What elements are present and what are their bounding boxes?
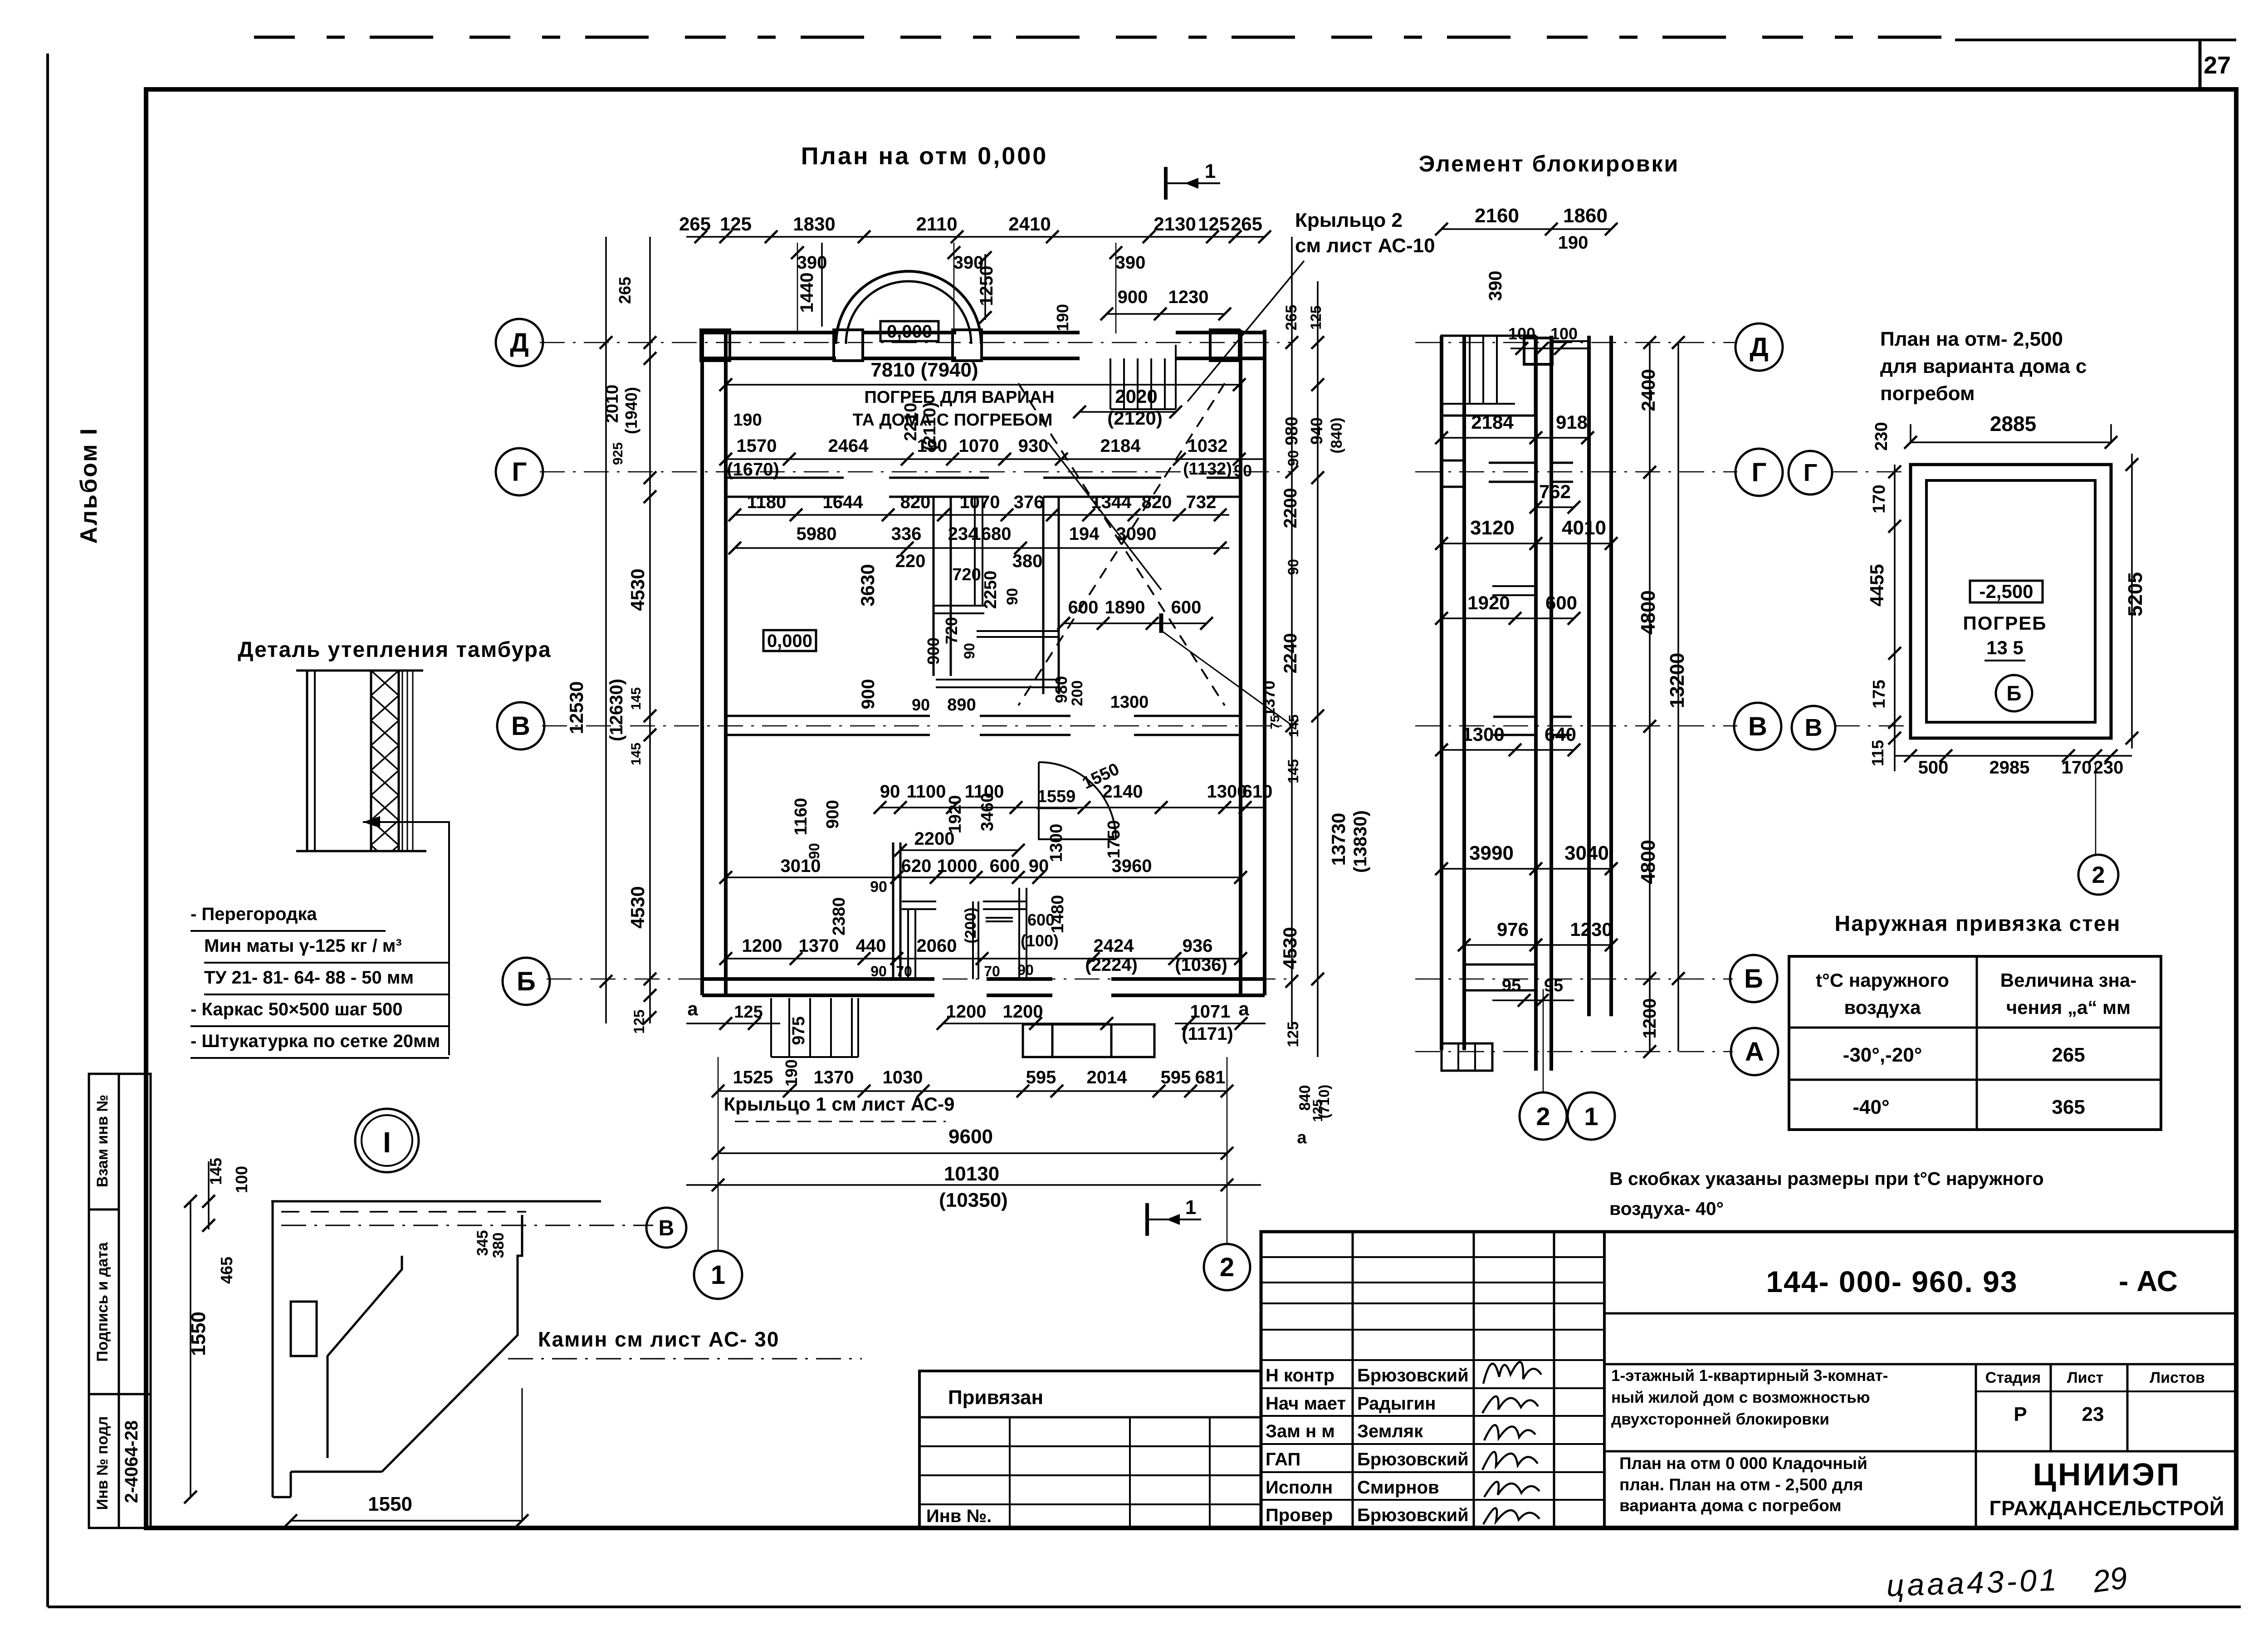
- outer page top scan dashes: [254, 36, 1955, 39]
- svg-text:90: 90: [870, 878, 887, 896]
- svg-text:В: В: [511, 711, 530, 741]
- svg-text:13200: 13200: [1666, 653, 1688, 708]
- svg-text:265: 265: [616, 277, 634, 304]
- svg-text:План на отм- 2,500: План на отм- 2,500: [1880, 328, 2063, 350]
- svg-text:план. План на отм - 2,500 для: план. План на отм - 2,500 для: [1619, 1475, 1863, 1494]
- partition bath horizontal 2: [977, 630, 1058, 632]
- svg-text:900: 900: [858, 679, 878, 710]
- svg-text:820: 820: [900, 492, 931, 512]
- svg-text:Д: Д: [1750, 333, 1768, 362]
- svg-text:3460: 3460: [978, 793, 997, 832]
- svg-text:12530: 12530: [566, 681, 587, 734]
- partition closet mid: [972, 901, 974, 979]
- svg-text:13 5: 13 5: [1986, 637, 2024, 658]
- svg-text:1: 1: [711, 1260, 725, 1290]
- svg-text:Наружная привязка стен: Наружная привязка стен: [1835, 912, 2121, 936]
- svg-text:125: 125: [631, 1009, 647, 1033]
- svg-text:ГРАЖДАНСЕЛЬСТРОЙ: ГРАЖДАНСЕЛЬСТРОЙ: [1989, 1497, 2225, 1520]
- svg-text:220: 220: [895, 551, 926, 571]
- partition corridor vertical: [974, 497, 976, 606]
- svg-text:3630: 3630: [857, 564, 878, 606]
- right vertical dim chain: [1291, 237, 1293, 1023]
- right plan left wall: [1440, 336, 1443, 1050]
- main plan top wall piers: [701, 330, 730, 361]
- svg-text:а: а: [1297, 1128, 1307, 1147]
- svg-text:190: 190: [733, 411, 762, 430]
- svg-text:1370: 1370: [799, 936, 839, 956]
- svg-text:90: 90: [961, 643, 978, 659]
- axis circle Г right: [1735, 449, 1783, 496]
- svg-text:2-4064-28: 2-4064-28: [122, 1420, 142, 1503]
- svg-text:2400: 2400: [1637, 369, 1659, 411]
- right plan B bottom wall: [1464, 964, 1536, 966]
- svg-text:погребом: погребом: [1880, 382, 1975, 405]
- svg-text:1: 1: [1205, 160, 1216, 182]
- svg-text:265: 265: [1231, 213, 1262, 235]
- svg-text:4800: 4800: [1637, 590, 1659, 635]
- svg-text:Взам инв №: Взам инв №: [94, 1095, 111, 1187]
- svg-text:1570: 1570: [737, 436, 777, 456]
- svg-text:2: 2: [2092, 862, 2105, 888]
- svg-text:930: 930: [1018, 436, 1049, 456]
- svg-text:1070: 1070: [959, 436, 999, 456]
- svg-text:336: 336: [891, 524, 922, 544]
- svg-text:двухсторонней блокировки: двухсторонней блокировки: [1611, 1410, 1829, 1428]
- svg-text:(1132): (1132): [1183, 460, 1232, 479]
- mark 0.000 top: [880, 321, 938, 341]
- svg-text:1: 1: [1185, 1196, 1196, 1219]
- axis line 2 vertical: [1227, 1057, 1228, 1243]
- svg-text:170: 170: [1870, 485, 1889, 513]
- svg-text:190: 190: [917, 436, 948, 456]
- node I circle: [355, 1109, 419, 1172]
- axis line A: [1415, 1051, 1733, 1053]
- svg-text:90: 90: [1029, 856, 1049, 876]
- stair arc door: [1039, 762, 1116, 839]
- svg-text:980: 980: [1282, 416, 1301, 445]
- cellar axis B circle: [1996, 675, 2032, 711]
- svg-text:1344: 1344: [1091, 492, 1132, 512]
- svg-text:1644: 1644: [823, 492, 864, 512]
- svg-text:Зам н м: Зам н м: [1266, 1421, 1335, 1441]
- fireplace dashed axis: [281, 1225, 653, 1226]
- svg-text:976: 976: [1497, 919, 1529, 940]
- svg-text:ПОГРЕБ ДЛЯ ВАРИАН: ПОГРЕБ ДЛЯ ВАРИАН: [864, 388, 1054, 407]
- svg-text:5980: 5980: [797, 524, 837, 544]
- svg-text:265: 265: [679, 213, 711, 235]
- svg-text:(1171): (1171): [1182, 1024, 1233, 1044]
- svg-text:200: 200: [1069, 680, 1086, 706]
- right plan mid stub: [1492, 585, 1536, 587]
- svg-text:681: 681: [1195, 1067, 1226, 1087]
- svg-text:-2,500: -2,500: [1979, 581, 2033, 602]
- svg-text:95: 95: [1502, 976, 1521, 995]
- svg-text:1071: 1071: [1190, 1002, 1231, 1022]
- svg-text:2: 2: [1536, 1102, 1550, 1131]
- main plan top wall axis D: [701, 331, 836, 334]
- svg-text:1440: 1440: [797, 273, 817, 313]
- svg-text:(1670): (1670): [727, 460, 779, 480]
- svg-text:595: 595: [1161, 1067, 1191, 1087]
- svg-text:ТУ 21- 81- 64- 88 - 50 мм: ТУ 21- 81- 64- 88 - 50 мм: [204, 968, 414, 988]
- svg-text:600: 600: [1545, 592, 1577, 613]
- svg-text:воздуха: воздуха: [1844, 997, 1921, 1018]
- sheet number box 27: [1955, 39, 2236, 41]
- svg-text:Привязан: Привязан: [948, 1386, 1043, 1409]
- partition bath horizontal 3: [936, 679, 1061, 680]
- porch1 stairs bottom left: [770, 998, 772, 1057]
- axis circle Г left: [496, 448, 543, 495]
- svg-text:175: 175: [1870, 680, 1889, 708]
- svg-text:936: 936: [1183, 936, 1213, 956]
- axis line 1 vertical: [718, 1057, 719, 1251]
- left vertical dim chain: [605, 237, 607, 1023]
- svg-text:В: В: [659, 1216, 675, 1240]
- svg-text:820: 820: [1142, 492, 1172, 512]
- svg-text:1000: 1000: [937, 856, 978, 876]
- right plan right dim chain: [1649, 343, 1651, 1052]
- row below V: [880, 807, 1266, 808]
- svg-text:1550: 1550: [368, 1493, 412, 1515]
- title block upper rows: [1261, 1256, 1604, 1258]
- svg-text:975: 975: [789, 1016, 808, 1045]
- svg-text:Радыгин: Радыгин: [1357, 1394, 1436, 1414]
- svg-text:Б: Б: [517, 967, 536, 996]
- svg-text:762: 762: [1539, 481, 1571, 502]
- svg-text:720: 720: [952, 565, 981, 584]
- svg-text:Стадия: Стадия: [1985, 1369, 2041, 1386]
- svg-text:600: 600: [1171, 597, 1202, 617]
- svg-text:1230: 1230: [1168, 287, 1209, 307]
- axis circle Д left: [496, 319, 543, 366]
- svg-text:В: В: [1805, 714, 1823, 741]
- svg-text:ЦНИИЭП: ЦНИИЭП: [2033, 1457, 2181, 1492]
- main plan bottom wall: [702, 977, 934, 981]
- svg-text:465: 465: [217, 1257, 236, 1284]
- svg-text:900: 900: [924, 637, 943, 665]
- svg-text:см лист АС-10: см лист АС-10: [1295, 235, 1435, 257]
- fireplace outline: [271, 1200, 601, 1203]
- svg-text:29: 29: [2090, 1560, 2129, 1599]
- right plan top square: [1524, 338, 1552, 364]
- svg-text:600: 600: [1027, 911, 1055, 929]
- svg-text:890: 890: [947, 695, 976, 715]
- svg-text:Провер: Провер: [1266, 1505, 1333, 1525]
- axis line V: [542, 725, 1293, 727]
- axis circle 1 bottom: [694, 1251, 742, 1299]
- svg-text:варианта дома с погребом: варианта дома с погребом: [1619, 1496, 1842, 1515]
- svg-text:Б: Б: [1744, 964, 1763, 994]
- svg-text:Величина зна-: Величина зна-: [2000, 969, 2136, 991]
- main plan right wall: [1239, 330, 1242, 995]
- svg-text:- Каркас 50×500 шаг 500: - Каркас 50×500 шаг 500: [191, 999, 402, 1019]
- svg-text:Листов: Листов: [2150, 1369, 2205, 1386]
- svg-text:2200: 2200: [1281, 488, 1300, 529]
- svg-text:ТА ДОМА С ПОГРЕБОМ: ТА ДОМА С ПОГРЕБОМ: [853, 411, 1053, 430]
- room dim row 1: [735, 514, 1229, 516]
- right plan central wall: [1534, 336, 1538, 1071]
- title block frame: [1261, 1232, 2236, 1528]
- right plan top porch: [1442, 336, 1535, 416]
- right plan right wall: [1587, 336, 1591, 1016]
- svg-text:640: 640: [1545, 724, 1576, 745]
- svg-text:90: 90: [1285, 450, 1301, 466]
- svg-text:595: 595: [1026, 1067, 1056, 1087]
- svg-text:1860: 1860: [1563, 205, 1608, 227]
- svg-text:0,000: 0,000: [887, 322, 932, 342]
- svg-text:3960: 3960: [1112, 856, 1152, 876]
- svg-text:ный жилой дом с возможностью: ный жилой дом с возможностью: [1611, 1389, 1870, 1406]
- svg-text:2014: 2014: [1087, 1067, 1128, 1087]
- svg-text:732: 732: [1186, 492, 1217, 512]
- svg-text:1300: 1300: [1047, 824, 1066, 862]
- interior wall axis G: [726, 477, 844, 479]
- svg-text:1: 1: [1584, 1102, 1598, 1131]
- svg-text:390: 390: [1115, 253, 1146, 273]
- tambour leader: [363, 822, 449, 1055]
- svg-text:(100): (100): [1021, 931, 1059, 950]
- svg-text:2885: 2885: [1990, 412, 2036, 436]
- svg-text:90: 90: [1017, 962, 1034, 978]
- svg-text:145: 145: [1285, 759, 1301, 783]
- svg-text:100: 100: [1550, 324, 1578, 343]
- axis line B(lower): [547, 979, 1293, 980]
- svg-text:t°C наружного: t°C наружного: [1816, 969, 1949, 991]
- svg-text:План на отм 0,000: План на отм 0,000: [801, 142, 1048, 170]
- svg-text:Элемент блокировки: Элемент блокировки: [1419, 151, 1680, 176]
- svg-text:4455: 4455: [1866, 564, 1887, 606]
- svg-text:620: 620: [901, 856, 932, 876]
- partition bath horizontal 1: [934, 605, 984, 607]
- svg-text:2184: 2184: [1100, 436, 1141, 456]
- svg-text:190: 190: [782, 1059, 801, 1087]
- svg-text:1200: 1200: [1003, 1002, 1043, 1022]
- svg-text:Брюзовский: Брюзовский: [1357, 1366, 1469, 1385]
- privyazan table: [919, 1371, 1261, 1528]
- svg-text:Подпись и дата: Подпись и дата: [94, 1242, 111, 1362]
- svg-text:3090: 3090: [1116, 524, 1157, 544]
- right plan A extension: [1442, 1043, 1492, 1045]
- svg-text:380: 380: [490, 1233, 507, 1258]
- svg-text:7810 (7940): 7810 (7940): [870, 359, 978, 381]
- svg-text:(200): (200): [962, 907, 979, 943]
- svg-text:144- 000- 960. 93: 144- 000- 960. 93: [1766, 1265, 2018, 1298]
- tambour wall lines: [296, 670, 423, 672]
- svg-text:Исполн: Исполн: [1266, 1478, 1333, 1498]
- outer page edge left: [46, 54, 49, 1607]
- right plan dims top: [1442, 228, 1611, 230]
- svg-text:1750: 1750: [1105, 820, 1124, 859]
- svg-text:500: 500: [1918, 758, 1949, 778]
- svg-text:125: 125: [1198, 213, 1230, 235]
- stage sheet cols: [1975, 1364, 1977, 1528]
- tambour insulation hatch: [371, 671, 399, 851]
- svg-text:1920: 1920: [1467, 592, 1510, 613]
- partition bath vertical: [1042, 497, 1045, 694]
- svg-text:2240: 2240: [1281, 633, 1300, 674]
- svg-text:а: а: [687, 998, 698, 1019]
- svg-text:600: 600: [1068, 597, 1099, 617]
- svg-text:1032: 1032: [1188, 436, 1228, 456]
- section mark top: [1164, 167, 1168, 200]
- svg-text:2210: 2210: [901, 403, 920, 441]
- svg-text:Альбом I: Альбом I: [76, 427, 102, 543]
- svg-text:125: 125: [1310, 1099, 1325, 1122]
- top dim row: [686, 236, 1266, 238]
- axis circle 2 cellar leader: [2078, 855, 2118, 895]
- svg-text:720: 720: [942, 617, 961, 644]
- svg-text:1250: 1250: [977, 266, 997, 306]
- svg-text:Г: Г: [1752, 458, 1767, 487]
- svg-text:23: 23: [2082, 1403, 2104, 1425]
- axis circle Б left: [503, 958, 550, 1005]
- interior wall axis V: [726, 715, 930, 717]
- svg-text:4010: 4010: [1562, 517, 1606, 539]
- axis circle 2 bottom: [1204, 1244, 1250, 1290]
- svg-text:1180: 1180: [747, 492, 787, 512]
- porch arch: [836, 271, 981, 344]
- bottom outer dims: [718, 1090, 1227, 1092]
- svg-text:194: 194: [1069, 524, 1100, 544]
- right plan G stubs: [1489, 462, 1536, 464]
- axis line D: [540, 342, 1293, 343]
- svg-text:1-этажный 1-квартирный 3-комна: 1-этажный 1-квартирный 3-комнат-: [1611, 1367, 1888, 1385]
- svg-text:5205: 5205: [2124, 572, 2146, 617]
- svg-text:365: 365: [2052, 1096, 2085, 1118]
- partition tambour vertical: [933, 497, 935, 676]
- dashed X room top right: [1018, 383, 1225, 705]
- svg-text:2060: 2060: [917, 936, 957, 956]
- svg-text:1525: 1525: [733, 1067, 773, 1087]
- outer page edge bottom: [48, 1606, 2241, 1608]
- title block label rows: [1261, 1387, 1604, 1389]
- svg-text:2140: 2140: [1103, 782, 1143, 802]
- svg-text:Брюзовский: Брюзовский: [1357, 1505, 1469, 1525]
- svg-text:2410: 2410: [1008, 213, 1051, 235]
- svg-text:1370: 1370: [1260, 680, 1278, 717]
- svg-text:2130: 2130: [1154, 213, 1196, 235]
- svg-text:Брюзовский: Брюзовский: [1357, 1449, 1469, 1469]
- svg-text:1070: 1070: [960, 492, 1000, 512]
- fireplace B circle: [646, 1208, 686, 1248]
- main plan left wall: [700, 330, 704, 995]
- dim row G: [726, 458, 1266, 460]
- svg-text:190: 190: [1558, 233, 1589, 253]
- svg-text:Г: Г: [512, 457, 527, 487]
- svg-text:1100: 1100: [907, 782, 946, 802]
- svg-text:3010: 3010: [781, 856, 821, 876]
- svg-text:610: 610: [1242, 782, 1273, 802]
- svg-text:265: 265: [2052, 1044, 2085, 1066]
- svg-text:1160: 1160: [792, 798, 811, 835]
- svg-text:100: 100: [1508, 324, 1535, 343]
- svg-text:а: а: [1238, 998, 1249, 1019]
- axis circle В cellar: [1792, 706, 1835, 749]
- axis circle В right: [1734, 703, 1781, 750]
- cellar bottom dims: [1895, 755, 2132, 757]
- svg-text:воздуха- 40°: воздуха- 40°: [1609, 1198, 1724, 1219]
- svg-text:1300: 1300: [1207, 782, 1247, 802]
- svg-text:1200: 1200: [742, 936, 782, 956]
- svg-text:2110: 2110: [916, 213, 957, 235]
- svg-text:- Штукатурка по сетке 20мм: - Штукатурка по сетке 20мм: [191, 1031, 440, 1051]
- svg-text:190: 190: [1053, 304, 1072, 331]
- svg-text:925: 925: [611, 442, 626, 465]
- svg-text:1680: 1680: [971, 524, 1012, 544]
- svg-text:I: I: [383, 1126, 391, 1159]
- svg-text:1030: 1030: [883, 1067, 923, 1087]
- axis circle В left: [497, 702, 544, 749]
- svg-text:А: А: [1745, 1037, 1764, 1067]
- svg-text:Деталь утепления тамбура: Деталь утепления тамбура: [238, 638, 551, 662]
- svg-text:13730: 13730: [1328, 813, 1349, 866]
- svg-text:125: 125: [1285, 1022, 1302, 1048]
- svg-text:В скобках указаны размеры при: В скобках указаны размеры при t°C наружн…: [1609, 1168, 2044, 1189]
- svg-text:(2120): (2120): [1107, 407, 1162, 429]
- cellar inner wall: [1926, 480, 2095, 722]
- cellar mark -2.500: [1970, 581, 2043, 602]
- svg-text:Мин маты γ-125 кг / м³: Мин маты γ-125 кг / м³: [204, 936, 402, 956]
- svg-text:для варианта дома с: для варианта дома с: [1880, 355, 2087, 377]
- svg-text:345: 345: [474, 1230, 491, 1256]
- svg-text:Н контр: Н контр: [1266, 1366, 1334, 1385]
- axis circle Б right: [1730, 955, 1777, 1002]
- axis line G: [540, 471, 1293, 473]
- svg-text:2020: 2020: [1115, 386, 1157, 407]
- mark 0.000 room: [763, 630, 816, 651]
- svg-text:900: 900: [1118, 287, 1148, 307]
- svg-text:90: 90: [1004, 588, 1021, 605]
- svg-text:(840): (840): [1328, 417, 1345, 453]
- svg-text:4530: 4530: [1279, 927, 1300, 969]
- partition closet left: [892, 842, 894, 979]
- svg-text:4800: 4800: [1637, 840, 1659, 884]
- svg-text:2250: 2250: [981, 571, 1000, 609]
- svg-text:(13830): (13830): [1350, 810, 1370, 873]
- svg-text:380: 380: [1012, 551, 1043, 571]
- svg-text:1890: 1890: [1105, 597, 1145, 617]
- svg-text:3040: 3040: [1564, 842, 1609, 864]
- title block columns: [1352, 1232, 1354, 1528]
- svg-text:чения „а“ мм: чения „а“ мм: [2006, 997, 2131, 1018]
- svg-text:125: 125: [1308, 305, 1324, 329]
- svg-text:2985: 2985: [1989, 758, 2030, 778]
- svg-text:1230: 1230: [1570, 919, 1612, 940]
- svg-text:Лист: Лист: [2067, 1369, 2103, 1386]
- svg-text:170: 170: [2062, 758, 2092, 778]
- svg-text:265: 265: [1283, 305, 1300, 331]
- svg-text:100: 100: [232, 1166, 251, 1193]
- svg-text:900: 900: [823, 800, 842, 828]
- svg-text:90: 90: [880, 782, 900, 802]
- svg-text:(12630): (12630): [606, 679, 626, 741]
- svg-text:цааа43-01: цааа43-01: [1886, 1562, 2059, 1603]
- svg-text:1300: 1300: [1462, 724, 1504, 745]
- svg-text:2380: 2380: [830, 897, 849, 936]
- svg-text:376: 376: [1014, 492, 1044, 512]
- svg-text:918: 918: [1556, 411, 1588, 433]
- svg-text:ГАП: ГАП: [1266, 1449, 1300, 1469]
- svg-text:0,000: 0,000: [767, 631, 812, 651]
- section mark bottom: [1145, 1203, 1149, 1236]
- svg-text:390: 390: [1486, 271, 1505, 301]
- right plan V stubs: [1493, 716, 1536, 718]
- svg-text:90: 90: [1234, 461, 1252, 480]
- wall binding table: [1789, 956, 2161, 1130]
- svg-text:Земляк: Земляк: [1357, 1421, 1423, 1441]
- svg-text:-40°: -40°: [1853, 1096, 1889, 1118]
- svg-text:Инв №.: Инв №.: [926, 1506, 992, 1526]
